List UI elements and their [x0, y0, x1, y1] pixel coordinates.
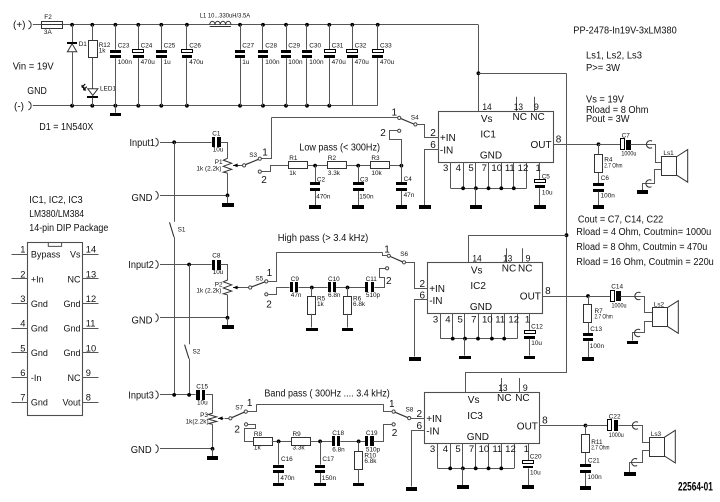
wire Ls3 return — [630, 451, 650, 473]
svg-text:12: 12 — [518, 163, 529, 174]
connector Ls1 + — [646, 141, 652, 148]
capacitor C4 47n — [396, 166, 415, 206]
wire S5-1 bypass riser — [269, 253, 277, 282]
wire out to C14 — [588, 296, 610, 298]
ground input3 — [207, 449, 218, 460]
resistor R5 1k — [308, 288, 326, 315]
capacitor C7 1000u — [621, 133, 637, 158]
label L1 value — [200, 13, 251, 20]
wire Vs drop to IC1 pin14 — [478, 25, 480, 112]
svg-text:C30: C30 — [309, 43, 321, 50]
label IC type — [29, 209, 84, 220]
svg-text:Rload = 8 Ohm, Coutmin = 470u: Rload = 8 Ohm, Coutmin = 470u — [576, 242, 707, 253]
svg-text:Pout = 3W: Pout = 3W — [586, 114, 630, 125]
pin 6 label IC3 — [417, 421, 423, 432]
pin 1 stub IC3 — [524, 444, 529, 460]
svg-text:C8: C8 — [212, 253, 221, 260]
svg-text:NC: NC — [518, 263, 532, 274]
capacitor C19 510p — [365, 430, 381, 453]
wire C7 to Ls1 — [631, 145, 662, 163]
svg-text:14: 14 — [86, 245, 96, 255]
svg-text:Band pass ( 300Hz .... 3.4 kHz: Band pass ( 300Hz .... 3.4 kHz) — [264, 389, 389, 400]
wire C1 to P1 — [221, 143, 228, 159]
svg-text:C16: C16 — [281, 456, 293, 463]
switch S5 — [249, 268, 273, 310]
svg-text:2.7 Ohm: 2.7 Ohm — [591, 445, 609, 452]
wire R8 to R9 — [272, 441, 292, 443]
junction node C18-R10 — [357, 440, 361, 444]
ground input1 — [222, 195, 234, 207]
wire highpass bypass — [276, 252, 382, 254]
svg-text:GND: GND — [132, 193, 153, 204]
resistor R9 3.3k — [292, 431, 311, 451]
svg-text:Rload = 4 Ohm, Coutmin= 1000u: Rload = 4 Ohm, Coutmin= 1000u — [576, 227, 711, 238]
label GND IC3 — [467, 432, 489, 443]
junction IC1 out node — [597, 142, 601, 146]
svg-text:C1: C1 — [212, 130, 221, 137]
ground IC2 -IN — [409, 357, 421, 361]
svg-text:1k: 1k — [99, 48, 107, 55]
ground C13 — [582, 357, 594, 361]
svg-text:10u: 10u — [542, 190, 553, 197]
wire Vs to IC2 pin14 — [469, 235, 567, 263]
svg-text:IC3: IC3 — [467, 411, 483, 422]
svg-text:8: 8 — [86, 393, 91, 403]
label +IN IC3 — [426, 414, 442, 425]
wire Input2 to C8 — [160, 264, 212, 266]
ground C17 — [314, 483, 326, 486]
svg-text:1k: 1k — [254, 445, 262, 452]
svg-text:1k(2.2k): 1k(2.2k) — [186, 419, 209, 426]
pin 1 stub IC1 — [536, 162, 541, 180]
label doc number — [678, 481, 713, 494]
wire GND rail — [33, 105, 378, 107]
capacitor C26 470u — [182, 25, 204, 106]
junctions gnd bus IC2 — [451, 337, 506, 341]
svg-text:+IN: +IN — [440, 133, 456, 144]
svg-text:GND: GND — [131, 445, 152, 456]
label Vin — [13, 62, 54, 73]
svg-text:C17: C17 — [322, 456, 334, 463]
wire +V rail — [63, 24, 479, 26]
label Cout note — [578, 214, 664, 225]
svg-text:100n: 100n — [265, 59, 280, 66]
junction Vs at IC2 — [565, 233, 569, 237]
capacitor C31 470u — [324, 25, 346, 106]
svg-text:NC: NC — [497, 393, 511, 404]
junctions gnd bus IC1 — [461, 186, 516, 190]
svg-text:9: 9 — [86, 368, 91, 378]
label OUT IC1 — [531, 140, 552, 151]
op-amp IC1 body — [439, 112, 554, 163]
connector Ls2 - — [634, 329, 640, 336]
capacitor C15 10u — [196, 383, 208, 406]
label -IN IC1 — [440, 146, 453, 157]
node GND input2 terminal — [132, 314, 159, 327]
svg-text:12: 12 — [508, 314, 519, 325]
svg-text:1: 1 — [267, 268, 273, 279]
ground R5 — [306, 328, 318, 331]
svg-text:Gnd: Gnd — [63, 324, 80, 334]
svg-text:C22: C22 — [609, 413, 621, 420]
svg-text:1k (2.2k): 1k (2.2k) — [196, 288, 221, 295]
junction GND row 1 — [226, 194, 230, 198]
pin 2 label IC1 — [430, 128, 436, 139]
capacitor C29 100n — [281, 25, 303, 106]
junction node R2-C3 — [356, 164, 360, 168]
resistor R1 1k — [289, 155, 308, 177]
label -IN IC3 — [426, 427, 439, 438]
svg-text:100n: 100n — [288, 59, 303, 66]
svg-text:510p: 510p — [366, 292, 381, 299]
svg-text:C26: C26 — [189, 43, 201, 50]
label Vs pin IC1 — [481, 114, 493, 125]
label GND IC1 — [480, 151, 502, 162]
capacitor C13 100n — [583, 323, 604, 357]
svg-text:150n: 150n — [322, 475, 337, 482]
svg-text:8: 8 — [545, 286, 551, 297]
wire P3 to GND row — [212, 424, 214, 449]
svg-text:PP-2478-In19V-3xLM380: PP-2478-In19V-3xLM380 — [573, 26, 677, 37]
svg-text:10u: 10u — [531, 340, 542, 347]
resistor R7 2.7 Ohm — [584, 296, 613, 323]
label NC pins IC1 — [513, 112, 545, 123]
capacitor C8 10u — [212, 253, 224, 276]
switch S4 — [380, 107, 419, 139]
svg-text:OUT: OUT — [531, 140, 552, 151]
wire C22 to Ls3 — [619, 426, 650, 443]
svg-text:1: 1 — [262, 147, 268, 158]
svg-text:10u: 10u — [213, 147, 224, 154]
svg-text:1000u: 1000u — [609, 432, 624, 439]
svg-text:-IN: -IN — [426, 427, 439, 438]
DIP pin 10 Gnd — [63, 343, 98, 358]
switch S3 — [243, 147, 269, 186]
svg-text:3A: 3A — [44, 29, 53, 36]
DIP pin 13 NC — [68, 269, 99, 284]
svg-text:OUT: OUT — [517, 421, 538, 432]
svg-text:9: 9 — [526, 253, 531, 263]
wire IC3 -IN to ground — [412, 431, 425, 487]
svg-text:S4: S4 — [411, 115, 419, 122]
svg-text:7: 7 — [482, 163, 487, 174]
pin 8 label IC3 — [542, 416, 548, 427]
resistor R12 — [89, 25, 111, 58]
svg-text:14: 14 — [482, 102, 491, 112]
svg-text:7: 7 — [471, 314, 476, 325]
junction Vs branch — [477, 71, 481, 75]
svg-text:R2: R2 — [328, 155, 337, 162]
svg-text:High pass (> 3.4 kHz): High pass (> 3.4 kHz) — [278, 233, 369, 244]
svg-text:+IN: +IN — [426, 414, 442, 425]
svg-text:11: 11 — [492, 444, 502, 455]
pin 2 label IC3 — [417, 409, 423, 420]
DIP pin 1 Bypass — [12, 245, 61, 260]
svg-text:11: 11 — [86, 319, 96, 329]
svg-text:1: 1 — [524, 444, 529, 455]
svg-text:3.3k: 3.3k — [328, 170, 341, 177]
svg-text:Vs: Vs — [471, 265, 483, 276]
svg-text:Ls3: Ls3 — [651, 431, 662, 438]
svg-text:C23: C23 — [118, 43, 130, 50]
capacitor C12 10u — [524, 324, 543, 359]
junction node R3-C4 — [400, 164, 404, 168]
svg-text:4: 4 — [443, 444, 449, 455]
wire C10 to C11 — [336, 287, 365, 289]
svg-text:NC: NC — [68, 373, 81, 383]
inductor L1 coil — [210, 21, 231, 26]
junction node C9-R5 — [310, 286, 314, 290]
pin 1 stub IC2 — [525, 314, 530, 330]
DIP pin 9 NC — [68, 368, 99, 383]
svg-text:2: 2 — [266, 299, 272, 310]
label IC list — [29, 195, 83, 206]
capacitor C17 150n — [315, 441, 336, 482]
svg-text:Gnd: Gnd — [63, 299, 80, 309]
svg-text:3.3k: 3.3k — [293, 445, 306, 452]
ground IC1 -IN — [419, 205, 431, 209]
svg-text:C24: C24 — [141, 43, 153, 50]
svg-text:NC: NC — [68, 274, 81, 284]
svg-text:R9: R9 — [293, 431, 302, 438]
junction node R1-C2 — [313, 164, 317, 168]
capacitor C16 470n — [273, 441, 295, 482]
svg-text:2: 2 — [392, 428, 398, 439]
DIP pin 7 Gnd — [12, 393, 48, 408]
svg-text:C33: C33 — [380, 43, 392, 50]
capacitor C6 100n — [593, 173, 615, 206]
svg-text:Ls2: Ls2 — [654, 301, 665, 308]
ground C3 — [352, 205, 364, 209]
switch S8 — [389, 399, 414, 439]
junction Input2 bridge — [187, 263, 191, 267]
svg-text:3: 3 — [20, 294, 25, 304]
svg-text:Vs: Vs — [70, 250, 81, 260]
DIP pin 8 Vout — [62, 393, 98, 408]
svg-text:D1: D1 — [79, 41, 88, 48]
DIP pin 4 Gnd — [12, 319, 48, 334]
svg-text:C2: C2 — [317, 177, 326, 184]
pin 14 label IC1 — [482, 102, 491, 112]
svg-text:5: 5 — [455, 444, 460, 455]
label +IN IC1 — [440, 133, 456, 144]
svg-text:1k: 1k — [317, 301, 325, 308]
svg-text:S5: S5 — [255, 275, 263, 282]
fuse F2 3A — [41, 14, 62, 36]
svg-text:C14: C14 — [611, 284, 623, 291]
svg-text:Gnd: Gnd — [31, 398, 48, 408]
svg-text:2.7 Ohm: 2.7 Ohm — [604, 162, 622, 169]
wire P1 to GND row — [227, 173, 229, 195]
wire S6 common to IC2 +IN — [406, 263, 428, 289]
label OUT IC3 — [517, 421, 538, 432]
node Input3 terminal — [128, 391, 158, 402]
svg-text:-In: -In — [31, 373, 42, 383]
svg-text:470u: 470u — [141, 59, 156, 66]
svg-text:Bypass: Bypass — [31, 250, 61, 260]
svg-text:C7: C7 — [622, 133, 631, 140]
ground at GND rail — [110, 106, 121, 116]
svg-text:22564-01: 22564-01 — [678, 481, 713, 494]
svg-text:100n: 100n — [590, 343, 605, 350]
wire bypass to S6-1 — [383, 253, 388, 256]
wire C9 to C10 — [299, 287, 328, 289]
speaker Ls2 — [653, 301, 679, 334]
wire out to C22 — [586, 425, 608, 427]
wire R6 to ground — [347, 314, 349, 328]
svg-text:150n: 150n — [359, 193, 374, 200]
svg-text:1: 1 — [392, 107, 398, 118]
svg-text:LED1: LED1 — [100, 86, 116, 93]
svg-text:R8: R8 — [254, 431, 263, 438]
svg-text:S7: S7 — [235, 404, 243, 411]
ground IC3 -IN — [406, 487, 417, 491]
resistor R10 6.8k — [355, 441, 378, 469]
wire S4 common to IC1 +IN — [418, 125, 439, 138]
svg-text:Low pass (< 300Hz): Low pass (< 300Hz) — [299, 142, 380, 153]
pin 9 stub IC3 — [520, 378, 528, 393]
svg-text:R3: R3 — [371, 155, 380, 162]
svg-text:13: 13 — [514, 102, 523, 112]
wire (+) to fuse — [33, 24, 42, 26]
wire IC1 -IN to ground — [425, 150, 439, 206]
capacitor C10 6.8n — [328, 276, 341, 299]
DIP pin 2 +In — [12, 269, 44, 284]
label Ls list — [586, 51, 642, 62]
svg-text:GND: GND — [467, 432, 489, 443]
svg-text:10k: 10k — [371, 170, 382, 177]
label IC2 — [470, 281, 486, 292]
wire GND row 1 — [160, 195, 228, 197]
svg-text:10u: 10u — [197, 400, 208, 407]
svg-text:1: 1 — [384, 245, 390, 256]
svg-text:C5: C5 — [542, 173, 551, 180]
wire R9 to C18 — [310, 441, 331, 443]
ground C16 — [273, 483, 284, 486]
wire C18 to C19 — [340, 441, 365, 443]
junctions gnd bus IC3 — [448, 467, 503, 471]
svg-text:2.7 Ohm: 2.7 Ohm — [595, 314, 613, 321]
pin 14 label IC2 — [472, 253, 481, 263]
svg-text:Rload = 16 Ohm, Coutmin = 220: Rload = 16 Ohm, Coutmin = 220u — [576, 257, 714, 268]
svg-text:D1 = 1N540X: D1 = 1N540X — [39, 122, 93, 133]
svg-text:2: 2 — [386, 276, 392, 287]
capacitor C20 10u — [522, 454, 542, 490]
potentiometer P1 1k — [196, 158, 242, 173]
ground input2 — [222, 318, 234, 329]
capacitor C2 470n — [310, 166, 331, 206]
svg-text:S3: S3 — [249, 152, 257, 159]
svg-text:IC1, IC2, IC3: IC1, IC2, IC3 — [29, 195, 83, 206]
svg-text:47n: 47n — [291, 292, 302, 299]
junction dots GND rail — [70, 104, 331, 108]
capacitor C33 470u — [372, 25, 395, 106]
junction Input1 bridge — [172, 140, 176, 144]
DIP pin 3 Gnd — [12, 294, 48, 309]
svg-text:+In: +In — [31, 274, 44, 284]
wire S8 common to IC3 +IN — [411, 418, 424, 420]
svg-text:Gnd: Gnd — [31, 324, 48, 334]
wire C14 to Ls2 — [621, 297, 653, 313]
svg-text:1000u: 1000u — [621, 150, 636, 157]
svg-text:12: 12 — [86, 294, 96, 304]
svg-text:1: 1 — [389, 399, 395, 410]
ground C2 — [309, 205, 321, 209]
wire out to C7 — [599, 144, 621, 146]
node Input2 terminal — [128, 260, 158, 271]
wire GND row 3 — [160, 448, 213, 450]
label OUT IC2 — [520, 292, 541, 303]
label NC pins IC3 — [497, 393, 530, 404]
svg-text:1k: 1k — [289, 170, 297, 177]
pin number labels IC1 — [443, 163, 528, 174]
svg-text:5: 5 — [468, 163, 473, 174]
svg-text:Vin = 19V: Vin = 19V — [13, 62, 54, 73]
capacitor C11 510p — [365, 276, 381, 299]
switch S4 contact 2 — [398, 129, 401, 132]
junction IC3 out node — [584, 424, 588, 428]
ground IC2 gnd bus — [459, 339, 471, 359]
svg-text:C11: C11 — [366, 276, 378, 283]
pin 2 label IC2 — [420, 279, 426, 290]
svg-text:NC: NC — [513, 112, 527, 123]
wire S7-2 to R8 — [245, 425, 256, 442]
wire C8 to P2 — [221, 265, 228, 281]
label D1 type — [39, 122, 93, 133]
svg-text:4: 4 — [445, 314, 451, 325]
label Vs spec — [586, 94, 624, 105]
wire S7-1 bypass riser — [248, 405, 257, 412]
wire S3-1 bypass riser — [262, 118, 272, 159]
svg-text:C20: C20 — [530, 454, 542, 461]
svg-text:10: 10 — [482, 314, 493, 325]
wire R5 to ground — [311, 314, 313, 328]
ground IC3 gnd bus — [457, 468, 469, 489]
capacitor C28 100n — [258, 25, 280, 106]
svg-text:C15: C15 — [196, 383, 208, 390]
wire R3 to C4 node — [389, 165, 401, 167]
capacitor C14 1000u — [611, 284, 627, 310]
junction Input3-S2 — [187, 393, 191, 397]
label Rload8 note — [576, 242, 707, 253]
svg-text:470u: 470u — [380, 59, 395, 66]
capacitor C21 100n — [580, 453, 602, 486]
wire S5-2 to C9 — [269, 288, 290, 295]
wire Vs branch right — [478, 73, 566, 75]
wire Input3 to C15 — [160, 394, 196, 396]
wire bypass to S8-1 — [384, 405, 393, 412]
pin 13 stub IC2 — [503, 248, 512, 263]
capacitor C5 10u — [534, 173, 553, 209]
DIP pin 6 -In — [12, 368, 42, 383]
svg-text:470n: 470n — [316, 193, 331, 200]
svg-text:S2: S2 — [193, 349, 201, 356]
svg-text:C32: C32 — [355, 43, 367, 50]
svg-text:3: 3 — [443, 163, 448, 174]
junction node R9-C17 — [318, 440, 322, 444]
op-amp IC2 body — [428, 263, 543, 314]
pin number labels IC2 — [433, 314, 519, 325]
svg-text:2: 2 — [234, 424, 240, 435]
svg-text:13: 13 — [86, 269, 96, 279]
svg-text:C13: C13 — [590, 326, 602, 333]
potentiometer P3 1k — [186, 412, 229, 425]
svg-text:Vs: Vs — [481, 114, 493, 125]
svg-text:470u: 470u — [332, 59, 347, 66]
label -IN IC2 — [429, 296, 442, 307]
label IC3 — [467, 411, 483, 422]
label Rload16 note — [576, 257, 714, 268]
